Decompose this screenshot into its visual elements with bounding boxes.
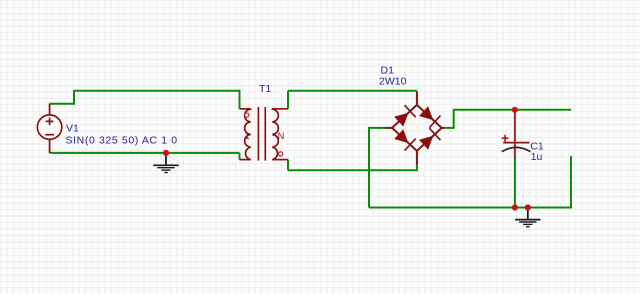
wire down to T1 primary top pin: [239, 90, 241, 109]
D1 diode lower-right: [419, 128, 441, 149]
junction node C1 to ground rail: [512, 204, 518, 210]
wire up to plus rail: [453, 110, 455, 129]
ground symbol left: [153, 153, 178, 173]
wire node down to ground rail: [368, 127, 370, 208]
wire up to bridge bottom pin: [416, 162, 418, 171]
wire right riser: [570, 156, 572, 209]
voltage source V1: [37, 104, 61, 153]
C1 lead through plates: [514, 143, 516, 158]
wire T1 secondary top up: [287, 91, 289, 109]
svg-text:SIN(0 325 50) AC 1 0: SIN(0 325 50) AC 1 0: [66, 135, 178, 147]
ground symbol right: [515, 208, 540, 227]
svg-text:N: N: [278, 131, 285, 141]
wire bridge right pin out: [445, 127, 454, 129]
svg-text:V1: V1: [66, 123, 79, 135]
wire down to T1 primary bottom pin: [239, 153, 241, 160]
D1 right pin: [442, 127, 445, 129]
C1 plus plate: [503, 142, 529, 144]
wire secondary top rail to bridge top: [288, 90, 417, 92]
D1 diode upper-left: [394, 105, 416, 126]
T1 polarity dot primary: [245, 113, 249, 117]
wire step up: [73, 91, 75, 105]
T1 polarity dot secondary: [279, 152, 283, 156]
T1 secondary top pin: [272, 108, 288, 110]
T1 secondary winding: [272, 109, 278, 160]
T1 primary bottom pin: [240, 159, 251, 161]
T1 core bar right: [264, 107, 266, 161]
D1 diamond outline: [392, 105, 442, 151]
wire bridge left pin to node: [369, 127, 385, 129]
wire secondary bottom rail to bridge bottom: [288, 169, 417, 171]
bridge rectifier D1: [385, 91, 445, 164]
junction node at C1 plus rail: [512, 107, 518, 113]
T1 core bar left: [257, 107, 259, 161]
wire T1 secondary bottom down: [287, 160, 289, 171]
wire ground rail: [369, 207, 571, 209]
wire plus rail: [453, 109, 571, 111]
T1 secondary bottom pin: [272, 159, 288, 161]
D1 diode lower-left: [394, 129, 416, 150]
wire C1 bottom lead to ground rail: [514, 157, 516, 208]
C1 polarity plus sign: [502, 135, 509, 142]
T1 primary top pin: [240, 108, 251, 110]
svg-text:T1: T1: [259, 83, 271, 95]
transformer T1: [240, 107, 289, 161]
wire V1 top to step: [50, 103, 74, 105]
svg-text:2W10: 2W10: [379, 75, 407, 87]
capacitor C1: [502, 110, 531, 158]
C1 curved plate: [502, 147, 531, 151]
wire bottom rail V1 to T1: [50, 152, 240, 154]
svg-text:1u: 1u: [531, 151, 543, 163]
junction node at V1 ground: [163, 150, 169, 156]
junction node ground symbol rail: [525, 204, 531, 210]
D1 left pin: [385, 127, 392, 129]
D1 diode upper-right: [419, 106, 441, 127]
svg-text:1: 1: [245, 131, 250, 141]
D1 top pin: [416, 91, 418, 105]
T1 primary winding: [245, 109, 251, 160]
wire top rail to T1 primary top: [73, 90, 240, 92]
C1 top lead: [514, 110, 516, 143]
D1 bottom pin: [416, 151, 418, 165]
